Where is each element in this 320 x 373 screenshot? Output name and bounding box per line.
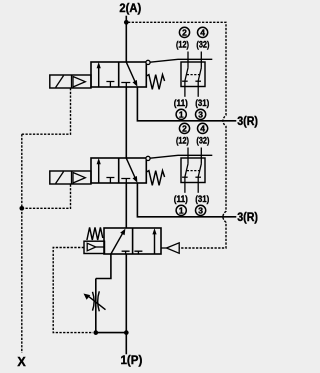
SW1 terminal 2 circled label	[179, 27, 189, 37]
SW2 contact 1 fixed terminal bar	[182, 176, 188, 178]
SW1 contact 1 top lead (terminal 2/12)	[187, 52, 189, 68]
solenoid SOL1 divider	[71, 75, 73, 88]
valve V1 assembly	[50, 27, 213, 119]
SW2 contact 1 top lead	[187, 148, 189, 164]
valve V3 body divider	[132, 228, 134, 254]
valve V2 body	[91, 158, 146, 183]
wire valve V2 bottom port to valve V3 top port	[125, 183, 127, 228]
switch actuator lever from V1 spool	[150, 59, 212, 62]
valve V1 right-box blocked port T	[121, 83, 130, 88]
pilot supply X branch to solenoid SOL1	[22, 88, 71, 134]
svg-text:(11): (11)	[174, 98, 188, 109]
wire valve V2 port3 to 3(R) lower	[137, 183, 236, 217]
svg-text:2(A): 2(A)	[119, 1, 141, 15]
throttle adjustment arrow	[88, 296, 106, 310]
valve V3 left pilot triangle	[87, 243, 96, 251]
switch actuator lever from V2 spool	[150, 155, 212, 158]
SW1 contact 2 top lead (terminal 4/32)	[200, 52, 202, 68]
throttle (variable restrictor) arcs	[93, 292, 95, 311]
pilot amplifier triangle of SOL2	[73, 173, 85, 184]
wire valve V1 port3 to 3(R) upper	[137, 87, 236, 121]
junction node throttle/pilot sense	[93, 330, 98, 335]
SW2 mechanical link (dashed)	[187, 170, 200, 172]
svg-text:2: 2	[182, 28, 187, 38]
SW2 contact 2 fixed terminal bar	[195, 176, 201, 178]
valve V3 right-box flow arrow	[154, 233, 156, 255]
svg-text:3: 3	[198, 206, 203, 216]
valve V2 left-box flow arrow	[98, 163, 100, 184]
SW2 terminal 4 circled label	[198, 123, 208, 133]
junction node at 1(P) branch	[124, 330, 129, 335]
solenoid SOL2 slash	[56, 172, 64, 184]
svg-text:(12): (12)	[176, 136, 189, 147]
pilot supply X branch to solenoid SOL2	[22, 184, 71, 208]
svg-text:3: 3	[198, 110, 203, 120]
valve V3 right pilot stem	[161, 247, 167, 249]
valve V2 assembly (same as V1, offset +96)	[50, 123, 213, 215]
svg-text:(32): (32)	[196, 136, 209, 147]
svg-text:(12): (12)	[176, 40, 189, 51]
SW1 contact 2 fixed terminal bar	[195, 80, 201, 82]
wire throttle to 1(P) line	[96, 332, 127, 334]
switch box SW1	[181, 62, 205, 87]
valve V1 left-box blocked port T	[106, 82, 114, 88]
wire valve V3 left-box port to throttle branch (step)	[96, 254, 111, 279]
valve V3 return spring (left, vertical)	[87, 227, 103, 240]
valve V3 left pilot triangle stem	[96, 246, 105, 248]
SW2 contact 2 bottom lead	[197, 177, 199, 193]
wire valve V1 bottom port to valve V2 top port	[125, 87, 127, 158]
solenoid SOL2 box	[50, 171, 91, 184]
SW1 contact 2 bottom lead (terminal 3/31)	[197, 81, 199, 97]
svg-text:(31): (31)	[195, 98, 209, 109]
svg-text:4: 4	[200, 124, 205, 134]
SW2 contact 2 top lead	[200, 148, 202, 164]
valve V1 body divider	[118, 62, 120, 87]
SW2 terminal 2 circled label	[179, 123, 189, 133]
SW1 contact 2 blade	[198, 68, 201, 81]
svg-text:1: 1	[179, 110, 184, 120]
valve V1 left-box flow arrow (1 to 2)	[98, 67, 100, 88]
valve V2 left-box blocked port T	[106, 178, 114, 184]
wire 2(A) to valve V1 top port	[125, 16, 127, 62]
valve V3 right pilot triangle	[167, 243, 180, 254]
SW1 terminal 3 circled label	[196, 109, 206, 119]
valve V1 spool-end pivot circle	[146, 60, 150, 64]
valve V2 return spring	[146, 171, 164, 186]
svg-text:(11): (11)	[174, 194, 188, 205]
junction node at 2(A) branch	[124, 20, 129, 25]
pilot sense dashed line to V3 left pilot	[53, 248, 93, 333]
valve V1 right-box exhaust diagonal (2 to 3)	[126, 62, 135, 82]
SW2 contact 2 blade	[198, 164, 201, 177]
valve V3 left-box blocked port T	[122, 251, 130, 254]
SW1 contact 1 bottom lead (terminal 1/11)	[184, 81, 186, 97]
valve V3 right-box blocked port T	[134, 251, 142, 254]
switch box SW2	[181, 158, 205, 183]
pilot amplifier triangle of SOL1	[73, 77, 85, 88]
valve V2 right-box exhaust diagonal	[126, 158, 135, 178]
wire throttle branch vertical	[95, 279, 97, 333]
SW1 terminal 1 circled label	[176, 109, 186, 119]
svg-text:(31): (31)	[195, 194, 209, 205]
valve V3 left pilot box	[84, 241, 105, 253]
SW2 contact 1 bottom lead	[184, 177, 186, 193]
svg-text:1(P): 1(P)	[121, 353, 143, 367]
svg-text:1: 1	[179, 206, 184, 216]
valve V3 (soft-start) assembly	[84, 227, 179, 254]
svg-text:3(R): 3(R)	[237, 210, 258, 224]
SW1 contact 1 blade	[185, 68, 188, 81]
junction node on X pilot line	[19, 206, 24, 211]
SW1 contact 1 fixed terminal bar	[182, 80, 188, 82]
valve V2 right-box blocked port T	[121, 179, 130, 184]
svg-text:3(R): 3(R)	[237, 114, 258, 128]
SW2 terminal 1 circled label	[176, 205, 186, 215]
valve V3 left-box throttled flow diagonal with arrow	[111, 234, 123, 254]
svg-text:4: 4	[200, 28, 205, 38]
valve V2 spool-end pivot circle	[146, 156, 150, 160]
solenoid SOL1 slash	[56, 76, 64, 88]
pilot line from 2(A) to valve V3 right pilot (dashed, with crossover hops)	[128, 22, 226, 248]
valve V1 body	[91, 62, 146, 87]
solenoid SOL2 divider	[71, 171, 73, 184]
valve V1 return spring	[146, 75, 164, 90]
SW2 terminal 3 circled label	[196, 205, 206, 215]
valve V2 body divider	[118, 158, 120, 183]
wire valve V3 bottom port to 1(P)	[125, 254, 127, 354]
svg-text:X: X	[17, 355, 26, 369]
valve V3 body	[104, 228, 161, 254]
solenoid SOL1 box	[50, 75, 91, 88]
SW2 contact 1 blade	[185, 164, 188, 177]
SW1 mechanical link (dashed)	[187, 74, 200, 76]
pilot supply X dashed line vertical	[21, 134, 23, 353]
svg-text:(32): (32)	[196, 40, 209, 51]
SW1 terminal 4 circled label	[198, 27, 208, 37]
svg-text:2: 2	[182, 124, 187, 134]
